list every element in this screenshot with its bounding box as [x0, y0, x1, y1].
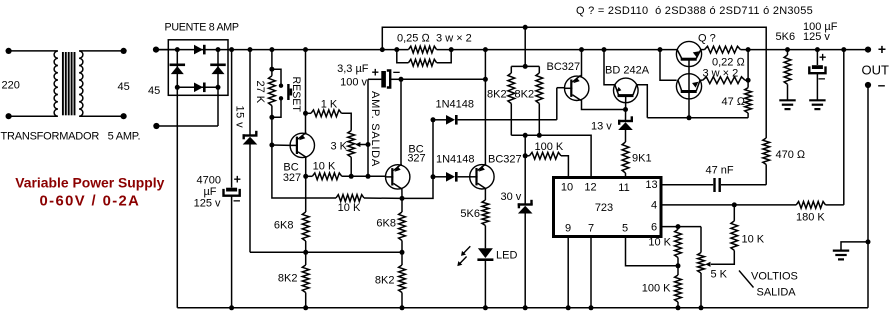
LED diode [457, 246, 493, 310]
svg-text:AMP. SALIDA: AMP. SALIDA [369, 91, 381, 167]
label 180K [796, 211, 825, 223]
resistor 0.25ohm lower [397, 50, 451, 67]
resistor 180K [796, 202, 844, 209]
svg-text:7: 7 [588, 223, 594, 235]
svg-text:+: + [234, 172, 241, 186]
bridge diode D3 (left) [170, 50, 186, 88]
label 4700uF 125v [194, 175, 221, 210]
svg-text:BC327: BC327 [488, 153, 522, 165]
plus minus 4700uF [233, 172, 241, 207]
label PUENTE 8 AMP [165, 22, 239, 34]
transistor BD242A [614, 78, 639, 103]
wire ground bottom rail [177, 87, 868, 307]
transistor BC327 Q2 [565, 75, 589, 100]
wire 180K column [841, 47, 846, 205]
wire Q bases [687, 59, 692, 120]
svg-text:100 K: 100 K [642, 282, 671, 294]
label 100uF 125v [803, 21, 838, 43]
svg-text:–: – [393, 64, 400, 79]
svg-text:PUENTE 8 AMP: PUENTE 8 AMP [165, 22, 239, 34]
svg-text:Q ? = 2SD110 ó 2SD388 ó 2SD71: Q ? = 2SD110 ó 2SD388 ó 2SD711 ó 2N3055 [576, 5, 813, 17]
label 1N4148 b [436, 153, 475, 165]
wire collector T4 [400, 189, 405, 201]
resistor 100K b [675, 266, 682, 311]
wire base line Q [647, 117, 748, 119]
label BC327 (Q2) [547, 61, 581, 73]
label LED [496, 250, 517, 262]
svg-text:0,22 Ω: 0,22 Ω [712, 56, 745, 68]
label BC327 (Q3) [488, 153, 522, 165]
capacitor 3.3uF [368, 71, 404, 88]
wire AC input 2 [153, 87, 218, 129]
wire base T1 [269, 143, 290, 148]
svg-text:OUT: OUT [862, 63, 890, 78]
wire pin13 [661, 184, 766, 186]
resistor 470 ohm [763, 138, 770, 185]
label BD 242A [605, 64, 650, 76]
label 10K c [648, 236, 671, 248]
svg-text:27 K: 27 K [254, 81, 266, 104]
svg-text:327: 327 [283, 172, 301, 184]
wire pin6 [661, 224, 701, 229]
svg-text:8K2: 8K2 [487, 88, 507, 100]
svg-text:6: 6 [651, 222, 657, 234]
ground symbol out [833, 242, 868, 260]
svg-text:327: 327 [407, 153, 425, 165]
label AMP. SALIDA [369, 91, 381, 167]
svg-text:0-60V / 0-2A: 0-60V / 0-2A [40, 194, 141, 210]
zener diode 13v [618, 116, 633, 130]
label 8K2 a [278, 272, 298, 284]
svg-text:6K8: 6K8 [274, 219, 294, 231]
diode 1N4148 b [433, 172, 470, 182]
svg-text:45: 45 [148, 85, 160, 97]
resistor 10K a [306, 173, 386, 180]
svg-text:10: 10 [561, 182, 573, 194]
bridge diode D1 (top) [194, 45, 206, 55]
wire emitter column T4 [400, 79, 402, 165]
svg-text:470 Ω: 470 Ω [776, 149, 806, 161]
label 45 (bridge input) [148, 85, 160, 97]
svg-text:5K6: 5K6 [460, 208, 480, 220]
label 6K8 b [376, 217, 396, 229]
IC 723 pin labels [561, 179, 658, 235]
wire BD right lead [637, 85, 648, 118]
wiper 3K pot [355, 142, 370, 147]
capacitor 100uF [809, 47, 825, 100]
svg-text:1N4148: 1N4148 [436, 98, 475, 110]
label Q? [698, 33, 716, 45]
bridge diode D4 (right) [210, 50, 226, 88]
svg-text:6K8: 6K8 [376, 217, 396, 229]
label 8K2 b [375, 274, 395, 286]
svg-text:3 K: 3 K [331, 140, 348, 152]
label 1N4148 a [436, 98, 475, 110]
transistor Q?1 [676, 41, 701, 66]
label 10K a [313, 161, 336, 173]
ground symbol right1 [779, 100, 795, 109]
svg-text:+: + [372, 65, 379, 79]
svg-text:47 nF: 47 nF [706, 164, 734, 176]
label 27K [254, 81, 266, 104]
svg-text:723: 723 [595, 202, 613, 214]
capacitor 47nF [715, 178, 720, 192]
label 6K8 a [274, 219, 294, 231]
svg-text:180 K: 180 K [796, 211, 825, 223]
wire line A [431, 88, 565, 123]
wire zener30 top [523, 135, 528, 204]
wiper 5K pot [705, 250, 734, 267]
svg-text:10 K: 10 K [648, 236, 671, 248]
resistor 10K c [675, 227, 682, 269]
resistor 0,22 b [700, 77, 750, 84]
svg-text:3,3 µF: 3,3 µF [337, 63, 369, 75]
resistor 8K2 a [302, 252, 309, 310]
label 100K b [642, 282, 671, 294]
plus minus 100uF [818, 50, 826, 85]
label 13v [591, 120, 612, 132]
label BC 327 (Q1a) [283, 161, 301, 184]
label 3K [331, 140, 348, 152]
resistor 0,22 a [705, 46, 741, 53]
label 30v [501, 191, 522, 203]
wire amp salida [367, 79, 369, 176]
resistor 8K2 b [399, 252, 406, 310]
svg-text:9K1: 9K1 [632, 152, 652, 164]
label VOLTIOS SALIDA [739, 270, 798, 298]
label 47nF [706, 164, 734, 176]
resistor 9K1 [622, 129, 629, 177]
svg-text:13: 13 [645, 179, 657, 191]
wire OUT minus column [866, 85, 871, 308]
label 15v [234, 106, 246, 129]
label 470 ohm [776, 149, 806, 161]
wire to pin12 [539, 135, 591, 177]
svg-text:10 K: 10 K [742, 234, 765, 246]
svg-text:5: 5 [622, 223, 628, 235]
resistor 10K d [731, 205, 738, 251]
ground symbol right2 [809, 100, 825, 109]
label 5K6 right [776, 31, 796, 43]
label RESET [290, 77, 302, 113]
label 3,3uF 100v [337, 63, 369, 89]
svg-text:Q ?: Q ? [698, 33, 716, 45]
label 0,22 ohm 3w x 2 [703, 56, 746, 79]
svg-text:13 v: 13 v [591, 120, 612, 132]
label 10K d [742, 234, 765, 246]
resistor 1K [306, 110, 352, 131]
diode 1N4148 a [446, 115, 458, 125]
wire x433 column [431, 120, 436, 180]
svg-text:125 v: 125 v [803, 31, 830, 43]
wire emitter T2 [579, 47, 584, 77]
svg-text:+: + [819, 50, 826, 64]
wire Q collector col [658, 47, 677, 80]
wire raw supply [401, 77, 488, 82]
pushbutton RESET [272, 69, 292, 117]
transformer T1 [6, 48, 127, 119]
capacitor 4700uF [224, 47, 240, 310]
resistor 5K6 led [482, 189, 489, 248]
label 8K2 8K2 [487, 88, 534, 100]
svg-text:0,25 Ω 3 w × 2: 0,25 Ω 3 w × 2 [397, 33, 472, 45]
resistor 0.25ohm upper [380, 46, 454, 53]
svg-text:BD 242A: BD 242A [605, 64, 650, 76]
resistor 27K [269, 47, 276, 145]
svg-text:3 w × 2: 3 w × 2 [703, 68, 739, 80]
label 10K b [338, 202, 361, 214]
wire line C [250, 251, 403, 253]
svg-text:4: 4 [651, 200, 657, 212]
label title Q? [576, 5, 813, 17]
resistor 10K b [272, 145, 402, 201]
wire collector T2 [582, 100, 626, 110]
wire pin5 [626, 237, 679, 266]
label TRANSFORMADOR 5 AMP. [1, 131, 141, 143]
svg-text:11: 11 [618, 182, 629, 194]
resistor 6K8 b [399, 198, 406, 254]
terminal OUT plus [865, 41, 886, 57]
bridge box [168, 40, 228, 96]
label 45 (secondary) [118, 81, 130, 93]
svg-text:10 K: 10 K [338, 202, 361, 214]
title Variable Power Supply (red) [15, 175, 164, 210]
wire BD bottom [623, 96, 628, 121]
svg-text:LED: LED [496, 250, 517, 262]
wire +V top rail [156, 49, 868, 51]
label 5K6 led [460, 208, 480, 220]
wire pin7 [589, 237, 594, 311]
svg-text:–: – [233, 193, 240, 208]
svg-text:220: 220 [2, 80, 20, 92]
svg-text:–: – [878, 78, 886, 93]
svg-text:1N4148: 1N4148 [436, 153, 475, 165]
label BC 327 (Q4) [407, 143, 425, 164]
wire collector T1 [303, 157, 308, 179]
IC 723 box [554, 178, 662, 237]
wire pin9 [566, 237, 571, 311]
potentiometer 3K [348, 131, 355, 177]
resistor 6K8 a [302, 176, 309, 255]
svg-text:µF: µF [203, 186, 216, 198]
svg-text:SALIDA: SALIDA [757, 286, 797, 298]
svg-text:BC327: BC327 [547, 61, 581, 73]
label 220 (primary) [2, 80, 20, 92]
svg-text:15 v: 15 v [234, 106, 246, 129]
junction dots bridge [175, 47, 221, 90]
transistor BC327 Q3 [470, 164, 494, 189]
resistor 5K6 right [784, 47, 791, 100]
svg-text:4700: 4700 [197, 175, 221, 187]
svg-text:45: 45 [118, 81, 130, 93]
svg-text:12: 12 [584, 182, 596, 194]
svg-text:30 v: 30 v [501, 191, 522, 203]
plus minus 3.3uF [372, 64, 400, 80]
transistor BC327 Q1a [290, 132, 314, 157]
zener diode 30v [518, 200, 533, 310]
svg-text:9: 9 [565, 223, 571, 235]
resistor 8K2 pair [508, 27, 543, 138]
svg-text:125 v: 125 v [194, 198, 221, 210]
svg-text:8K2: 8K2 [278, 272, 298, 284]
resistor 47 ohm [745, 47, 752, 118]
wire AC input 1 [153, 47, 177, 53]
svg-text:100 K: 100 K [535, 141, 564, 153]
svg-text:47 Ω: 47 Ω [722, 96, 746, 108]
wire to collector node [402, 177, 433, 199]
potentiometer 5K [698, 227, 705, 311]
zener diode 15v [243, 47, 258, 252]
wire emitter column T1 [303, 47, 308, 134]
label 100K a [535, 141, 564, 153]
svg-text:8K2: 8K2 [515, 88, 535, 100]
svg-text:8K2: 8K2 [375, 274, 395, 286]
svg-text:Variable Power Supply: Variable Power Supply [15, 175, 164, 191]
svg-text:RESET: RESET [290, 77, 302, 113]
label 0,25 ohm 3w x 2 [397, 33, 472, 45]
svg-text:–: – [818, 70, 825, 85]
svg-text:10 K: 10 K [313, 161, 336, 173]
svg-text:5K6: 5K6 [776, 31, 796, 43]
label 5K [711, 268, 728, 280]
label 47 ohm [722, 96, 746, 108]
label 1K [321, 99, 338, 111]
resistor 100K a [525, 152, 568, 177]
terminal OUT minus [865, 78, 886, 93]
svg-text:5 K: 5 K [711, 268, 728, 280]
label 9K1 [632, 152, 652, 164]
svg-text:+: + [878, 41, 886, 57]
bridge diode D2 (bottom) [177, 83, 218, 93]
transistor Q?2 [676, 74, 701, 99]
svg-text:100 v: 100 v [340, 77, 367, 89]
wire pin4 [661, 202, 796, 207]
wire emitter column T3 [483, 47, 488, 166]
svg-text:1 K: 1 K [321, 99, 338, 111]
svg-text:TRANSFORMADOR 5 AMP.: TRANSFORMADOR 5 AMP. [1, 131, 141, 143]
svg-text:VOLTIOS: VOLTIOS [751, 270, 798, 282]
label OUT [862, 63, 890, 78]
transistor BC327 Q4 [386, 164, 410, 189]
wire bypass top [382, 25, 766, 138]
wire BD base to rail [602, 47, 615, 85]
